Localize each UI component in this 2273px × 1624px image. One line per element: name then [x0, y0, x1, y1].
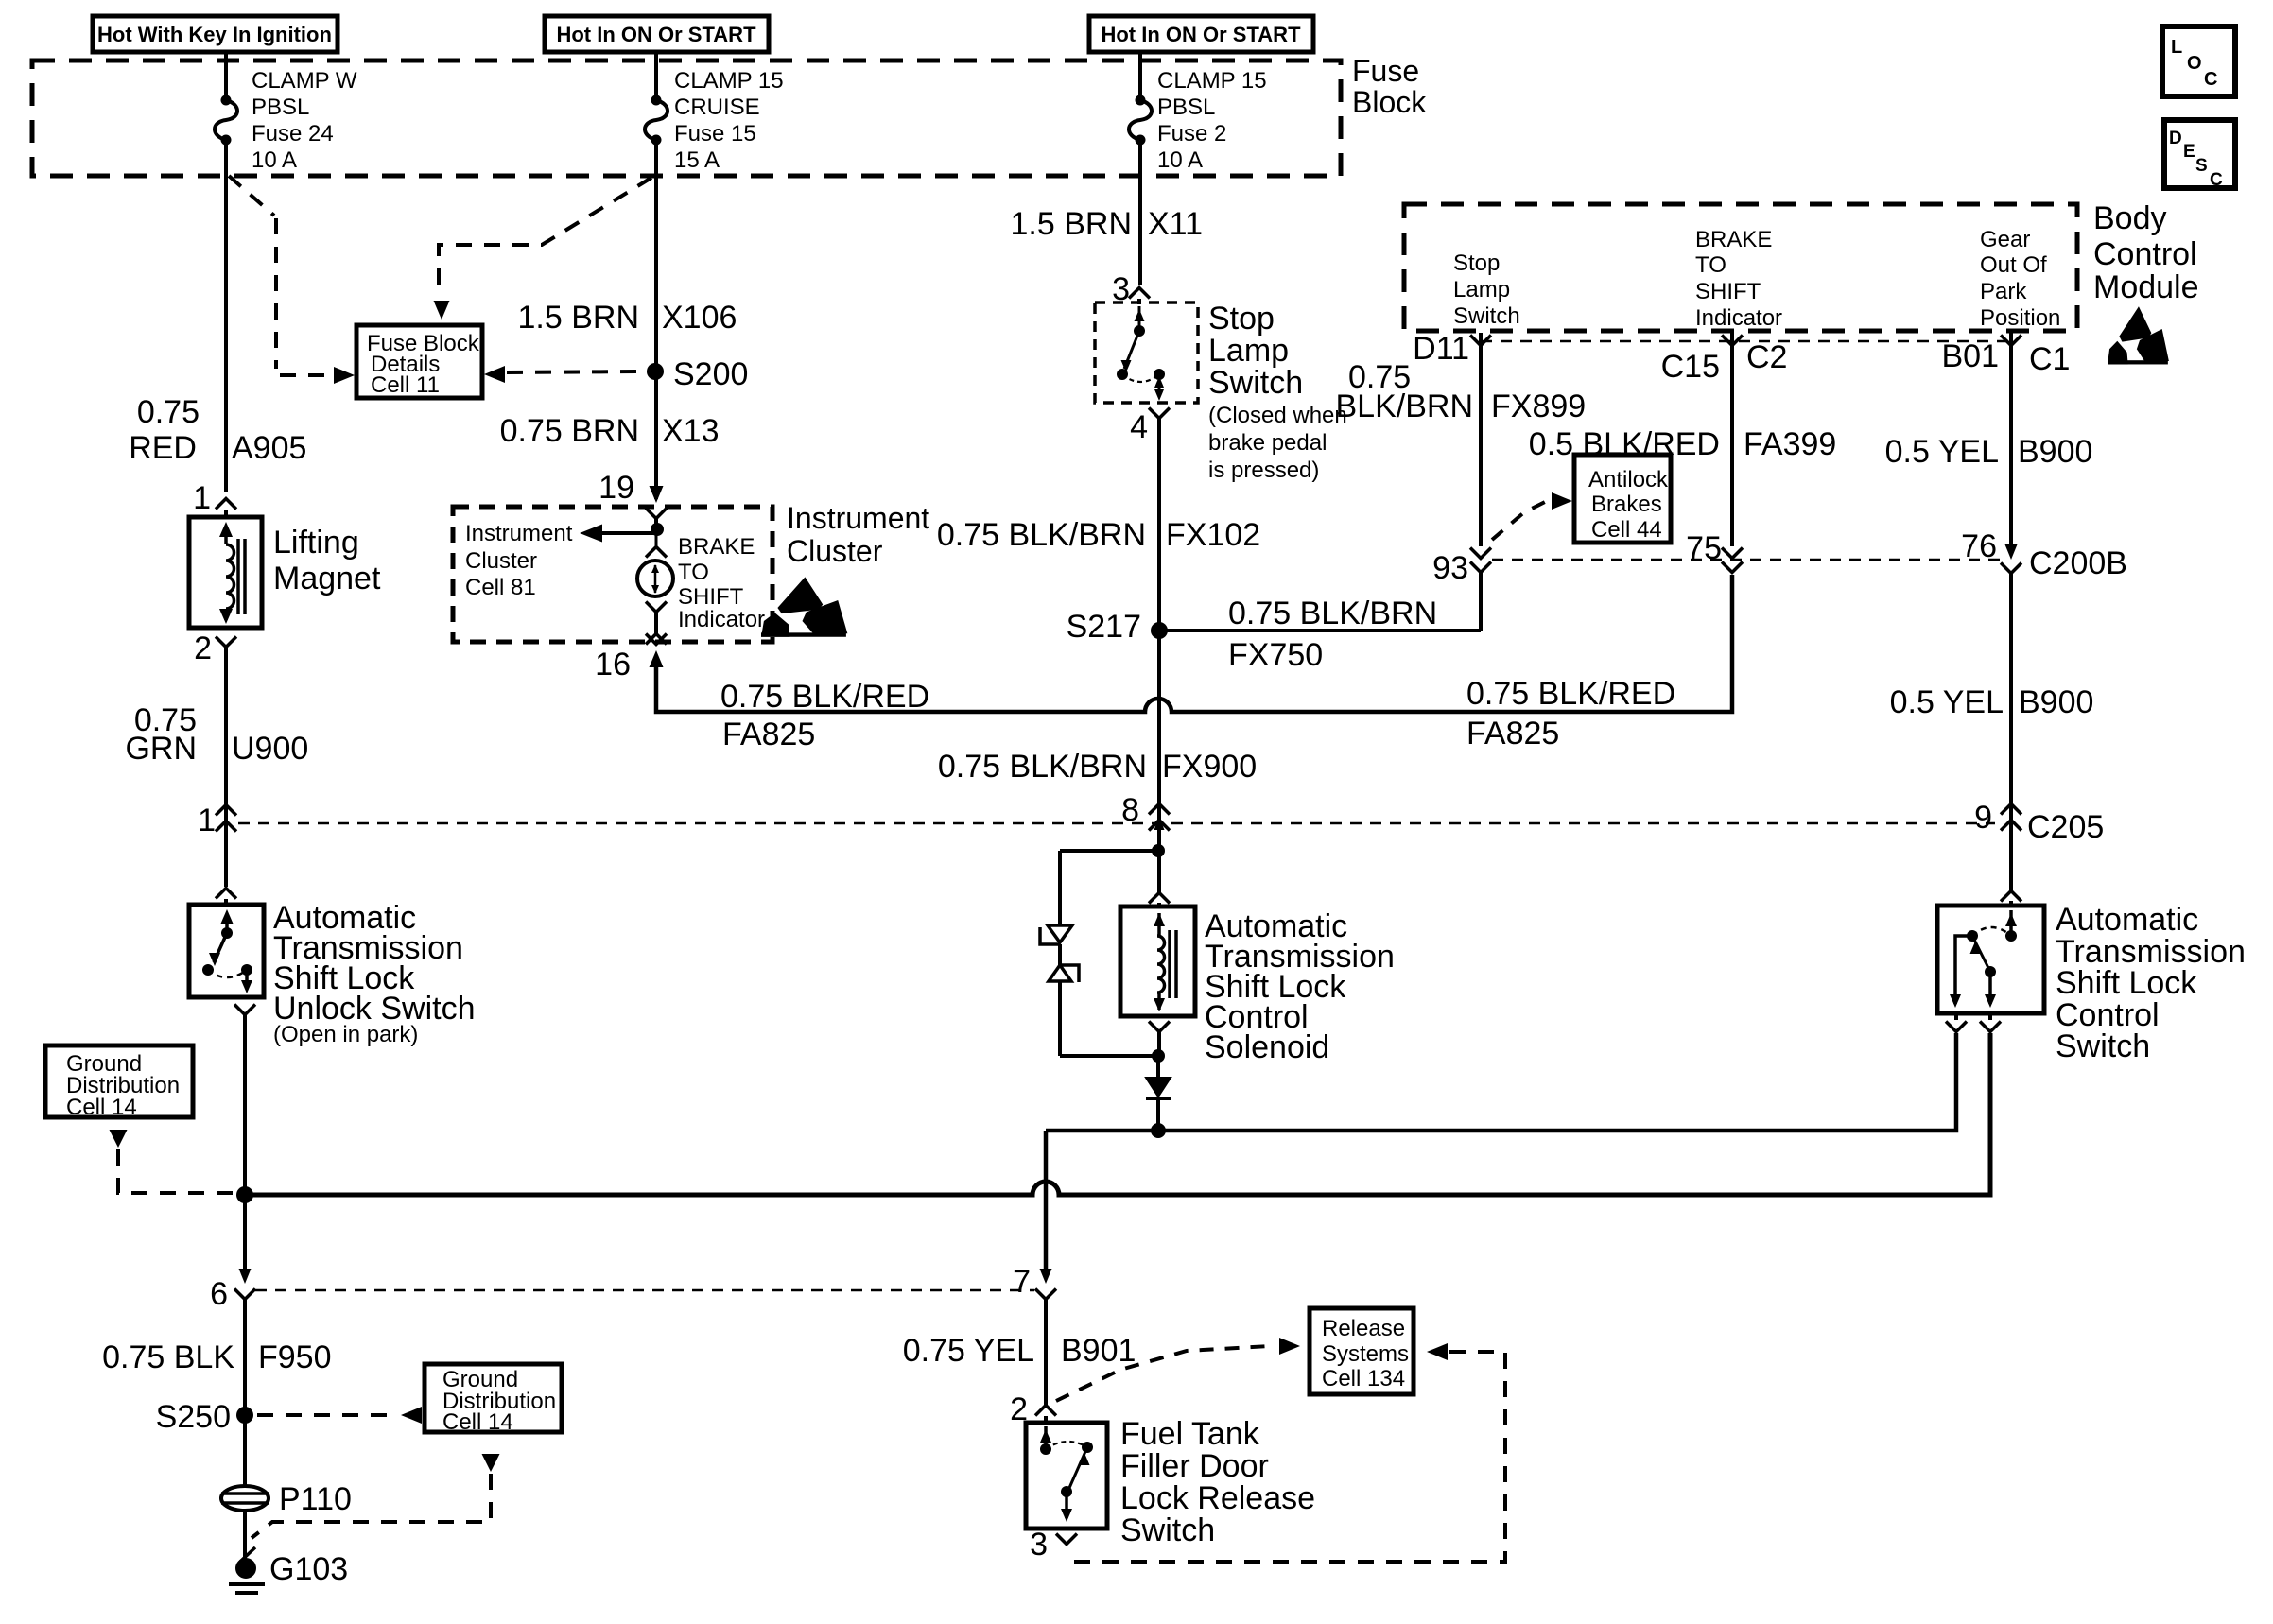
svg-text:15 A: 15 A: [674, 147, 720, 173]
svg-text:1: 1: [198, 803, 216, 838]
svg-text:Systems: Systems: [1322, 1341, 1409, 1367]
junction on solenoid bus: [1151, 1123, 1166, 1138]
svg-text:S217: S217: [1067, 609, 1141, 645]
svg-text:Switch: Switch: [2056, 1028, 2150, 1064]
dashed ref pin 3 to release systems: [1427, 1343, 1448, 1360]
svg-text:1.5 BRN: 1.5 BRN: [518, 300, 640, 336]
svg-text:Gear: Gear: [1980, 227, 2030, 252]
LOC box: [2162, 26, 2235, 96]
svg-text:Stop: Stop: [1453, 251, 1500, 276]
wire below junction to connector C205 pin 6: [243, 1195, 247, 1274]
svg-text:Filler Door: Filler Door: [1120, 1448, 1269, 1484]
wire FX899 0.75 BLK/BRN: [1479, 333, 1483, 546]
svg-text:O: O: [2187, 53, 2202, 74]
svg-text:Stop: Stop: [1208, 301, 1275, 337]
svg-text:F950: F950: [258, 1339, 332, 1375]
lifting magnet: [189, 517, 262, 628]
svg-text:B901: B901: [1061, 1333, 1136, 1369]
svg-text:S200: S200: [673, 356, 748, 392]
svg-text:Magnet: Magnet: [273, 561, 381, 596]
svg-text:6: 6: [210, 1276, 228, 1312]
svg-text:PBSL: PBSL: [252, 95, 309, 120]
svg-text:Hot In ON Or START: Hot In ON Or START: [1101, 23, 1301, 46]
svg-text:2: 2: [194, 631, 212, 666]
svg-text:3: 3: [1030, 1527, 1048, 1563]
wire to ground G103: [243, 1511, 247, 1560]
svg-text:Instrument: Instrument: [465, 521, 573, 546]
svg-text:Body: Body: [2093, 200, 2167, 236]
svg-text:BRAKE: BRAKE: [1695, 227, 1772, 252]
svg-text:GRN: GRN: [125, 731, 197, 767]
wire FA399 0.5 BLK/RED: [1730, 333, 1734, 546]
header box: Hot With Key In Ignition: [93, 16, 338, 52]
svg-text:FX899: FX899: [1491, 389, 1586, 424]
svg-text:Cell 11: Cell 11: [371, 372, 440, 398]
junction to zener branch: [1152, 844, 1165, 857]
svg-text:Indicator: Indicator: [678, 607, 765, 632]
wire to unlock switch: [224, 809, 228, 887]
svg-text:8: 8: [1121, 792, 1139, 828]
svg-text:(Open in park): (Open in park): [273, 1022, 418, 1047]
fuse 15 (CLAMP 15 CRUISE 15A): [651, 95, 662, 106]
svg-text:BLK/BRN: BLK/BRN: [1336, 389, 1474, 424]
svg-text:Cell 44: Cell 44: [1591, 517, 1662, 543]
automatic transmission shift lock control switch: [1937, 906, 2044, 1013]
dashed ref pin 2 to release systems: [1056, 1346, 1270, 1401]
svg-text:Park: Park: [1980, 279, 2027, 304]
control switch bottom pins: [1954, 1013, 1958, 1020]
brake to shift indicator lamp: [646, 547, 667, 558]
svg-text:93: 93: [1432, 550, 1468, 586]
wire FX750 0.75 BLK/BRN to BCM D11: [1159, 629, 1481, 632]
svg-text:0.75 BRN: 0.75 BRN: [500, 413, 639, 449]
svg-text:7: 7: [1013, 1264, 1031, 1300]
svg-text:BRAKE: BRAKE: [678, 534, 755, 560]
svg-text:10 A: 10 A: [1157, 147, 1203, 173]
wire A905 0.75 RED: [224, 140, 228, 492]
svg-text:B900: B900: [2018, 434, 2092, 470]
svg-text:A905: A905: [232, 430, 306, 466]
svg-text:B01: B01: [1942, 338, 2000, 374]
svg-text:Cluster: Cluster: [787, 534, 883, 568]
svg-text:Fuse 15: Fuse 15: [674, 121, 756, 147]
zener diode pair: [1058, 851, 1062, 925]
dashed ref 93 to antilock brakes: [1492, 502, 1545, 540]
svg-text:Automatic: Automatic: [2056, 902, 2198, 938]
svg-text:C: C: [2204, 69, 2217, 90]
svg-text:1.5 BRN: 1.5 BRN: [1011, 206, 1133, 242]
dashed ref wire2 to fuse block details: [439, 178, 651, 293]
svg-text:RED: RED: [129, 430, 197, 466]
wire from Hot With Key In Ignition into fuse block: [224, 52, 228, 100]
svg-text:0.75 BLK/RED: 0.75 BLK/RED: [720, 679, 929, 715]
BCM pin group dashed line: [1481, 340, 2011, 343]
wire from Hot In ON Or START (right) into fuse block: [1138, 52, 1142, 100]
svg-text:76: 76: [1961, 528, 1997, 564]
svg-text:D: D: [2169, 129, 2182, 148]
svg-text:S: S: [2195, 156, 2208, 176]
svg-text:Control: Control: [2093, 236, 2197, 272]
svg-text:G103: G103: [269, 1551, 348, 1587]
svg-text:Hot In ON Or START: Hot In ON Or START: [556, 23, 756, 46]
svg-text:Fuse 2: Fuse 2: [1157, 121, 1226, 147]
wire FA825 0.75 BLK/RED from pin 16: [656, 575, 1732, 712]
wire U900 0.75 GRN: [224, 648, 228, 809]
svg-text:brake pedal: brake pedal: [1208, 430, 1327, 456]
svg-text:Fuse: Fuse: [1352, 54, 1419, 88]
dashed ref from lower ground distribution box: [252, 1474, 491, 1538]
svg-text:4: 4: [1130, 409, 1148, 445]
svg-text:FA399: FA399: [1744, 426, 1836, 462]
svg-text:0.75 BLK/BRN: 0.75 BLK/BRN: [938, 749, 1147, 785]
svg-text:FX900: FX900: [1162, 749, 1257, 785]
svg-text:19: 19: [599, 470, 634, 506]
svg-text:9: 9: [1974, 800, 1992, 836]
wire B900 0.5 YEL upper: [2009, 333, 2013, 554]
instrument cluster dashed box: [453, 507, 772, 642]
DESC box: [2164, 120, 2235, 188]
svg-text:16: 16: [595, 647, 631, 682]
ground G103: [240, 1547, 255, 1562]
ground distribution cell 14 box (upper): [45, 1045, 193, 1117]
connector C205 dashed line: [238, 822, 1995, 825]
grommet P110: [221, 1486, 269, 1511]
header box: Hot In ON Or START (left): [545, 16, 769, 52]
svg-text:X11: X11: [1148, 206, 1203, 242]
svg-text:0.75 BLK/RED: 0.75 BLK/RED: [1466, 676, 1675, 712]
shift lock control solenoid connector top: [1149, 893, 1170, 904]
splice S200: [647, 363, 664, 380]
svg-text:E: E: [2183, 142, 2195, 162]
svg-text:Cell 81: Cell 81: [465, 575, 536, 600]
BCM pin C1/B01: [2001, 336, 2021, 346]
svg-text:0.75 BLK/BRN: 0.75 BLK/BRN: [1228, 596, 1437, 631]
svg-text:C1: C1: [2029, 341, 2070, 377]
solenoid bus wire: [1046, 1033, 1956, 1131]
wire B900 0.5 YEL lower: [2009, 573, 2013, 802]
ground distribution cell 14 box (lower): [425, 1364, 562, 1432]
svg-text:0.75 YEL: 0.75 YEL: [903, 1333, 1034, 1369]
antilock brakes cell 44 box: [1574, 455, 1671, 543]
junction of ground bus: [236, 1186, 253, 1203]
wire FX102 0.75 BLK/BRN: [1157, 419, 1161, 800]
release systems cell 134 box: [1310, 1308, 1414, 1394]
BCM pin C2/C15: [1722, 336, 1743, 346]
svg-text:Release: Release: [1322, 1316, 1405, 1341]
control switch connector top: [2009, 830, 2013, 890]
svg-text:SHIFT: SHIFT: [1695, 279, 1761, 304]
svg-text:Brakes: Brakes: [1591, 492, 1662, 517]
svg-text:Instrument: Instrument: [787, 501, 929, 535]
wire X106 1.5 BRN: [654, 140, 658, 499]
stop lamp switch dashed box: [1095, 302, 1198, 403]
svg-text:C15: C15: [1661, 349, 1720, 385]
wire B901 0.75 YEL: [1044, 1300, 1048, 1405]
svg-text:FA825: FA825: [722, 717, 815, 752]
fuse block dashed box: [32, 60, 1341, 176]
svg-text:Cell 134: Cell 134: [1322, 1366, 1405, 1391]
diode: [1156, 1056, 1160, 1078]
svg-text:Lamp: Lamp: [1453, 277, 1510, 302]
svg-text:FX102: FX102: [1166, 517, 1260, 553]
BCM pin D11: [1470, 336, 1491, 346]
body control module dashed box: [1404, 204, 2077, 331]
svg-text:C: C: [2210, 170, 2223, 190]
svg-text:Block: Block: [1352, 85, 1427, 119]
svg-text:Hot With Key In Ignition: Hot With Key In Ignition: [97, 23, 332, 46]
svg-text:Lifting: Lifting: [273, 525, 359, 561]
svg-text:Lamp: Lamp: [1208, 333, 1289, 369]
fuse 2 (CLAMP 15 PBSL 10A): [1136, 95, 1146, 106]
svg-text:Switch: Switch: [1120, 1512, 1215, 1548]
C205 dashed line (lower): [255, 1289, 1034, 1292]
wire X11 1.5 BRN: [1138, 140, 1142, 285]
svg-text:Out Of: Out Of: [1980, 252, 2047, 278]
fuel tank filler door lock release switch: [1026, 1423, 1107, 1529]
svg-text:0.5 YEL: 0.5 YEL: [1890, 684, 2004, 720]
svg-text:Cluster: Cluster: [465, 548, 537, 574]
svg-text:Shift Lock: Shift Lock: [2056, 965, 2197, 1001]
svg-text:Indicator: Indicator: [1695, 305, 1782, 331]
svg-text:is pressed): is pressed): [1208, 458, 1319, 483]
automatic transmission shift lock control solenoid: [1120, 907, 1195, 1016]
header box: Hot In ON Or START (right): [1089, 16, 1313, 52]
ESD symbol (BCM): [2108, 306, 2169, 364]
svg-text:(Closed when: (Closed when: [1208, 403, 1347, 428]
svg-text:Cell 14: Cell 14: [442, 1409, 513, 1435]
svg-text:10 A: 10 A: [252, 147, 297, 173]
svg-text:B900: B900: [2019, 684, 2093, 720]
svg-text:CLAMP W: CLAMP W: [252, 68, 357, 94]
svg-text:FA825: FA825: [1466, 716, 1559, 752]
svg-text:Lock Release: Lock Release: [1120, 1480, 1315, 1516]
svg-text:P110: P110: [279, 1481, 352, 1517]
svg-text:SHIFT: SHIFT: [678, 584, 744, 610]
svg-text:Fuse 24: Fuse 24: [252, 121, 334, 147]
svg-text:CLAMP 15: CLAMP 15: [674, 68, 784, 94]
fuse block details cell 11 box: [356, 325, 482, 398]
dashed ref from ground distribution to junction: [118, 1149, 236, 1193]
svg-text:Switch: Switch: [1453, 303, 1520, 329]
svg-text:Module: Module: [2093, 269, 2199, 305]
automatic transmission shift lock unlock switch: [189, 905, 264, 997]
svg-text:L: L: [2171, 37, 2182, 58]
svg-text:Switch: Switch: [1208, 365, 1303, 401]
svg-text:CRUISE: CRUISE: [674, 95, 760, 120]
svg-text:D11: D11: [1413, 331, 1469, 367]
svg-text:0.75 BLK: 0.75 BLK: [102, 1339, 234, 1375]
C200B dashed line: [1492, 559, 2001, 561]
connector pin 16: [646, 634, 667, 645]
svg-text:0.75: 0.75: [137, 394, 200, 430]
ESD symbol (instrument cluster): [761, 577, 847, 636]
svg-text:0.5 YEL: 0.5 YEL: [1885, 434, 1999, 470]
svg-text:FX750: FX750: [1228, 637, 1323, 673]
svg-text:PBSL: PBSL: [1157, 95, 1215, 120]
dashed ref S200 to fuse block details: [507, 371, 645, 372]
svg-text:1: 1: [193, 480, 211, 516]
svg-text:0.75 BLK/BRN: 0.75 BLK/BRN: [937, 517, 1146, 553]
wire F950 0.75 BLK: [243, 1300, 247, 1415]
svg-text:C205: C205: [2027, 809, 2104, 845]
svg-text:Cell 14: Cell 14: [66, 1095, 137, 1120]
wire from unlock switch to ground junction: [234, 1005, 255, 1015]
svg-text:Position: Position: [1980, 305, 2060, 331]
svg-text:C2: C2: [1746, 339, 1787, 375]
svg-text:X13: X13: [662, 413, 720, 449]
dashed ref S250 to ground distribution: [257, 1413, 395, 1417]
svg-text:75: 75: [1686, 530, 1722, 566]
svg-text:S250: S250: [156, 1399, 231, 1435]
dashed ref wire1 to fuse block details: [229, 176, 274, 216]
wire from Hot In ON Or START (left) into fuse block: [654, 52, 658, 100]
svg-text:C200B: C200B: [2029, 545, 2127, 581]
svg-text:U900: U900: [232, 731, 308, 767]
svg-text:X106: X106: [662, 300, 737, 336]
svg-text:TO: TO: [1695, 252, 1726, 278]
svg-text:TO: TO: [678, 560, 709, 585]
svg-text:Solenoid: Solenoid: [1205, 1029, 1329, 1065]
wire to P110: [243, 1415, 247, 1486]
arrow to instrument cluster cell 81: [599, 531, 657, 535]
svg-text:CLAMP 15: CLAMP 15: [1157, 68, 1267, 94]
fuse 24 (CLAMP W PBSL 10A): [221, 95, 232, 106]
svg-text:Fuel Tank: Fuel Tank: [1120, 1416, 1260, 1452]
svg-text:Antilock: Antilock: [1588, 467, 1669, 492]
ground bus wire to right: [245, 1033, 1990, 1195]
wire into brake-to-shift indicator: [654, 519, 658, 529]
